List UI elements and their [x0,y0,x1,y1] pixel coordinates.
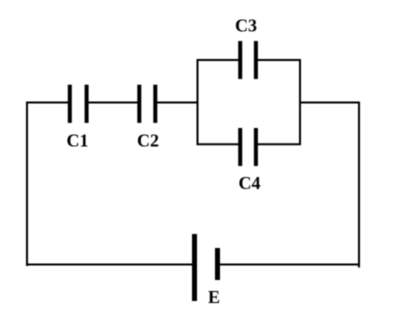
svg-text:C4: C4 [239,173,261,193]
svg-text:C2: C2 [137,131,159,151]
svg-text:C3: C3 [235,16,257,36]
svg-text:C1: C1 [67,131,89,151]
svg-text:E: E [208,287,220,307]
